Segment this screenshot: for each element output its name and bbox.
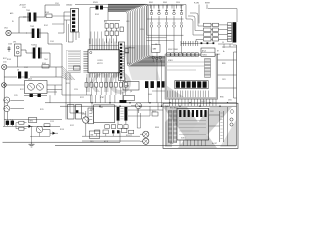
wire QFP left pins bbox=[83, 51, 88, 72]
svg-text:M37221: M37221 bbox=[97, 63, 103, 65]
transistor Q102 bbox=[4, 97, 24, 103]
jumper J1 bbox=[24, 94, 47, 97]
svg-text:R610: R610 bbox=[152, 111, 156, 113]
svg-text:P-ON: P-ON bbox=[194, 3, 199, 5]
capacitor row C810 bbox=[175, 81, 208, 89]
svg-text:STBY: STBY bbox=[205, 3, 211, 5]
svg-text:C931: C931 bbox=[228, 100, 232, 102]
svg-text:CN1: CN1 bbox=[4, 28, 8, 30]
svg-text:C153: C153 bbox=[50, 121, 54, 123]
resistor R215 bbox=[74, 66, 81, 70]
capacitor C501 bar bbox=[120, 100, 127, 103]
svg-text:IC901: IC901 bbox=[181, 138, 186, 140]
svg-text:R21: R21 bbox=[104, 22, 107, 24]
resistor R155 bbox=[44, 124, 50, 127]
capacitor C601 bbox=[145, 81, 154, 88]
resistor R110 box bbox=[28, 118, 37, 123]
wire fan lower-left bbox=[62, 44, 75, 80]
svg-text:D152: D152 bbox=[70, 125, 74, 127]
crystal X101 bbox=[90, 2, 108, 44]
wire top-right drops bbox=[186, 5, 237, 43]
svg-text:TO CRT: TO CRT bbox=[200, 101, 206, 103]
wire bbox=[48, 33, 62, 44]
wire bottom rails bbox=[3, 120, 237, 146]
svg-text:R115: R115 bbox=[40, 109, 44, 111]
diode matrix D301 bbox=[147, 2, 184, 35]
node IC801 top pin boxes bbox=[167, 53, 199, 57]
transformer T103 bbox=[26, 44, 50, 59]
wire bbox=[4, 100, 7, 119]
svg-text:C912: C912 bbox=[210, 111, 214, 113]
wire module left edge bbox=[165, 107, 167, 146]
svg-text:R820: R820 bbox=[222, 63, 226, 65]
ground bbox=[29, 142, 35, 147]
svg-text:R158: R158 bbox=[60, 129, 64, 131]
resistor R525 bbox=[129, 130, 134, 133]
svg-text:L201: L201 bbox=[126, 21, 130, 23]
svg-text:IF601: IF601 bbox=[125, 86, 129, 88]
node labels right of module bbox=[220, 63, 232, 102]
capacitor row above module bbox=[181, 41, 214, 46]
diode D152 bbox=[50, 132, 58, 135]
wire IC801 right pin comb bbox=[205, 59, 211, 78]
wire bbox=[125, 47, 135, 49]
svg-text:C109: C109 bbox=[24, 67, 28, 69]
svg-text:T101: T101 bbox=[26, 10, 30, 12]
resistor network R201 bbox=[104, 22, 123, 36]
wire IC801 inner bbox=[167, 60, 204, 70]
svg-text:B+: B+ bbox=[223, 51, 225, 53]
node labels right of label box bbox=[217, 51, 221, 57]
svg-text:VIF: VIF bbox=[155, 44, 157, 46]
resistor box X801 bbox=[152, 44, 161, 52]
svg-text:Q501: Q501 bbox=[82, 114, 86, 116]
svg-text:D303: D303 bbox=[163, 2, 167, 4]
svg-text:+: + bbox=[10, 119, 11, 121]
node part number vertical bbox=[220, 111, 224, 142]
node misc labels bbox=[7, 3, 225, 145]
resistor box R540 bbox=[89, 131, 99, 138]
svg-text:C110: C110 bbox=[3, 62, 7, 64]
resistor stack R901 bbox=[168, 111, 172, 143]
capacitor C108 bbox=[17, 70, 28, 79]
wire right module connections bbox=[218, 45, 237, 120]
svg-text:BT: BT bbox=[217, 51, 219, 53]
op-amp U201 QFP body bbox=[88, 50, 120, 73]
transformer T501 cores bbox=[117, 107, 128, 121]
svg-text:TU801: TU801 bbox=[202, 55, 207, 57]
node tuner label box bbox=[201, 48, 215, 57]
svg-text:R108: R108 bbox=[7, 59, 11, 61]
connector J502 jack bbox=[140, 138, 149, 144]
transistor Q601 bbox=[131, 103, 142, 113]
svg-text:D301: D301 bbox=[149, 2, 153, 4]
connector J501 jack bbox=[140, 131, 149, 137]
svg-text:C103: C103 bbox=[8, 44, 12, 46]
svg-text:+B 12V: +B 12V bbox=[19, 5, 26, 7]
node module labels bbox=[165, 106, 214, 113]
connector CN102 bbox=[66, 5, 79, 33]
op-amp IC801 module body bbox=[165, 54, 217, 99]
wire bbox=[209, 107, 228, 146]
resistor box IF601 bbox=[123, 82, 139, 91]
svg-text:C101: C101 bbox=[22, 7, 26, 9]
node labels top-right bbox=[194, 3, 211, 5]
resistor box R601 bbox=[124, 96, 135, 101]
capacitor C103 bbox=[8, 44, 13, 53]
wire bus left bbox=[4, 67, 62, 120]
wire mid-right bbox=[128, 52, 165, 116]
svg-text:IC801 TUNER: IC801 TUNER bbox=[168, 49, 179, 51]
svg-text:IC801: IC801 bbox=[168, 60, 173, 62]
box relay K501 bbox=[68, 105, 82, 120]
op-amp IC901 module frame bbox=[163, 103, 238, 148]
transistor Q801 group bbox=[152, 56, 161, 62]
resistor R510 cluster bbox=[95, 128, 127, 133]
transformer T102 bbox=[26, 26, 48, 38]
svg-text:H-OUT: H-OUT bbox=[212, 143, 217, 145]
wire QFP top pins bbox=[89, 32, 118, 50]
transformer T501 outline bbox=[94, 105, 115, 123]
svg-text:C201: C201 bbox=[55, 3, 59, 5]
svg-text:T104: T104 bbox=[44, 59, 48, 61]
wire bbox=[4, 85, 62, 103]
svg-text:T501: T501 bbox=[99, 107, 103, 109]
svg-text:R930: R930 bbox=[220, 97, 224, 99]
wire IC901 bottom pins bbox=[180, 140, 205, 146]
connector J101 bbox=[4, 28, 11, 36]
wire right top bbox=[75, 5, 186, 53]
wire IC801 bottom pins bbox=[168, 91, 217, 107]
wire bbox=[115, 92, 126, 124]
wire rail bbox=[3, 120, 62, 127]
connector J901 bbox=[230, 109, 234, 126]
wire QFP bottom pins bbox=[89, 73, 118, 78]
svg-text:R220: R220 bbox=[66, 83, 70, 85]
capacitor C602 bbox=[157, 81, 165, 87]
svg-text:T103: T103 bbox=[31, 45, 35, 47]
wire bbox=[21, 50, 50, 67]
resistor R103 bbox=[45, 12, 64, 24]
resistor box L801 bbox=[125, 49, 129, 53]
node VCC label top-left bbox=[19, 5, 26, 10]
transistor Q101 pair box bbox=[25, 79, 48, 94]
svg-text:D501: D501 bbox=[90, 109, 94, 111]
svg-text:R102: R102 bbox=[44, 25, 48, 27]
op-amp IC901 body bbox=[177, 108, 209, 140]
svg-text:V-OUT: V-OUT bbox=[165, 106, 170, 108]
svg-text:R301: R301 bbox=[127, 63, 131, 65]
svg-text:C310: C310 bbox=[176, 2, 180, 4]
transformer T101 bbox=[23, 10, 45, 22]
svg-text:C8: C8 bbox=[17, 70, 19, 72]
svg-text:R520: R520 bbox=[126, 135, 130, 137]
svg-text:C105: C105 bbox=[50, 41, 54, 43]
wire bus vertical taps bbox=[151, 5, 182, 9]
resistor R105 bbox=[42, 63, 49, 68]
wire diode cluster drops bbox=[147, 35, 182, 54]
connector J102 bbox=[2, 64, 7, 69]
resistor R151 bbox=[19, 121, 24, 124]
capacitor C152 bbox=[10, 119, 14, 125]
svg-text:R222: R222 bbox=[80, 97, 84, 99]
connector CN201 bbox=[119, 42, 125, 81]
svg-text:+: + bbox=[5, 119, 6, 121]
svg-text:F501: F501 bbox=[90, 141, 94, 143]
connector CN301 body bbox=[233, 22, 237, 42]
svg-text:R105: R105 bbox=[42, 63, 46, 65]
capacitor C151 bbox=[5, 119, 9, 125]
transistor Q501 bbox=[82, 111, 89, 136]
crystal filter CF101 bbox=[3, 42, 21, 68]
wire bbox=[108, 4, 196, 6]
svg-text:R103: R103 bbox=[45, 12, 49, 14]
resistor R152 bbox=[19, 127, 24, 130]
svg-text:R911 R912: R911 R912 bbox=[170, 108, 178, 110]
connector CN301 pin boxes bbox=[222, 23, 232, 42]
svg-text:R112: R112 bbox=[20, 89, 24, 91]
wire QFP right pins bbox=[120, 51, 125, 72]
wire bbox=[4, 120, 50, 143]
resistor row R230 bbox=[85, 78, 127, 95]
svg-text:C115: C115 bbox=[14, 95, 18, 97]
svg-text:W901: W901 bbox=[155, 127, 159, 129]
wire bbox=[104, 21, 120, 44]
svg-text:C821: C821 bbox=[222, 79, 226, 81]
svg-text:R209: R209 bbox=[95, 14, 99, 16]
svg-text:C210: C210 bbox=[140, 29, 144, 31]
resistor row R501 bbox=[105, 125, 128, 129]
wire above module bbox=[218, 42, 237, 48]
svg-text:T102: T102 bbox=[30, 26, 34, 28]
wire bbox=[45, 5, 60, 17]
svg-text:C604: C604 bbox=[148, 94, 152, 96]
svg-text:IC201: IC201 bbox=[97, 60, 102, 62]
svg-text:C220: C220 bbox=[74, 89, 78, 91]
resistor R610 box bbox=[152, 112, 158, 116]
wire bbox=[82, 109, 141, 141]
node pin labels U201 left bbox=[67, 50, 81, 72]
wire bus nest bbox=[108, 4, 166, 66]
transistor Q151 bbox=[36, 126, 50, 136]
connector J103 bbox=[2, 83, 7, 88]
wire verticals center bbox=[66, 73, 115, 120]
wire long horizontal rails bbox=[45, 102, 237, 107]
wire bbox=[62, 80, 92, 95]
svg-text:IN: IN bbox=[12, 21, 14, 23]
svg-text:5V: 5V bbox=[222, 42, 224, 44]
svg-text:Q101: Q101 bbox=[28, 79, 32, 81]
svg-text:CF1: CF1 bbox=[13, 42, 16, 44]
transistor Q103 bbox=[4, 106, 24, 112]
connector CN502 bbox=[88, 108, 94, 124]
svg-text:CN102: CN102 bbox=[66, 5, 73, 7]
node labels bottom right bbox=[165, 101, 206, 108]
svg-text:CN2: CN2 bbox=[128, 47, 131, 49]
svg-text:STBY: STBY bbox=[100, 97, 104, 99]
wire bbox=[58, 12, 79, 42]
logic gate row Q301 bbox=[204, 23, 222, 41]
diode D151 bbox=[27, 125, 34, 128]
resistor stack R905 bbox=[173, 111, 176, 143]
svg-text:Q6: Q6 bbox=[130, 91, 132, 93]
wire bbox=[11, 17, 27, 33]
